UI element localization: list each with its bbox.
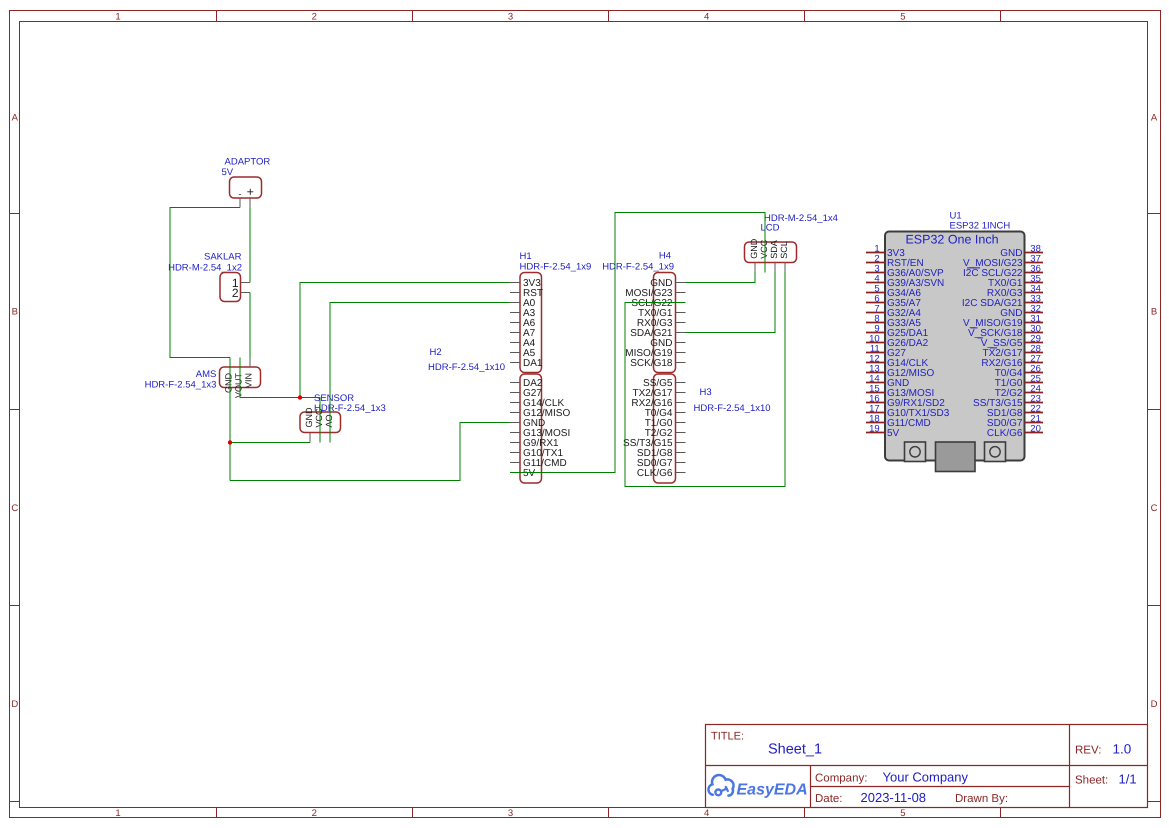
U1 pin 38 GND [1025,252,1044,254]
H2 pin 1 DA2 [510,382,520,384]
wire H2 5V to LCD VCC [510,213,765,473]
U1 pin 30 V_SCK/G18 [1025,332,1044,334]
U1 pin 14 GND [866,382,885,384]
U1 pin 6 G35/A7 [866,302,885,304]
U1 pin 7 G32/A4 [866,312,885,314]
svg-text:ESP32 One Inch: ESP32 One Inch [905,233,998,247]
svg-text:SCK/G18: SCK/G18 [630,358,673,369]
U1 pin 19 5V [866,432,885,434]
H4 pin 5 RX0/G3 [676,322,686,324]
svg-text:+: + [247,185,254,199]
SENSOR pin GND [309,433,311,443]
svg-text:DA1: DA1 [523,358,543,369]
LCD pin GND [754,263,756,273]
IC U1 ESP32 1INCH module [866,211,1043,472]
H4 pin 1 GND [676,282,686,284]
svg-text:SAKLAR: SAKLAR [204,252,242,263]
U1 pin 11 G27 [866,352,885,354]
H4 pin 7 GND [676,342,686,344]
H2 pin 3 G14/CLK [510,402,520,404]
H4 pin 8 MISO/G19 [676,352,686,354]
H4 pin 4 TX0/G1 [676,312,686,314]
U1 mounting pad right [985,442,1006,462]
U1 pin 20 CLK/G6 [1025,432,1044,434]
U1 pin 12 G14/CLK [866,362,885,364]
wire SAKLAR pin2 to AMS VIN [249,293,251,358]
svg-text:HDR-F-2.54_1x9: HDR-F-2.54_1x9 [520,261,592,272]
wire node to H1 3V3 [300,283,510,398]
H4 pin 6 SDA/G21 [676,332,686,334]
svg-text:2: 2 [312,808,317,819]
H2 pin 8 G10/TX1 [510,452,520,454]
svg-text:HDR-F-2.54_1x10: HDR-F-2.54_1x10 [428,362,505,373]
U1 pin 22 SD1/G8 [1025,412,1044,414]
H1 pin 7 A4 [510,342,520,344]
header H1 HDR-F-2.54_1x9 [510,251,591,373]
H2 pin 2 G27 [510,392,520,394]
AMS pin GND [229,358,231,368]
H3 pin 4 T0/G4 [676,412,686,414]
U1 usb tab [936,442,976,472]
svg-text:SCL: SCL [779,241,789,259]
svg-text:HDR-F-2.54_1x10: HDR-F-2.54_1x10 [694,403,771,414]
H4 pin 3 SCL/G22 [676,302,686,304]
svg-text:SDA: SDA [769,240,779,259]
svg-text:VOUT: VOUT [234,373,244,399]
svg-text:Sheet_1: Sheet_1 [768,742,822,758]
U1 pin 29 V_SS/G5 [1025,342,1044,344]
svg-text:B: B [1151,307,1157,318]
svg-text:5: 5 [900,12,905,23]
svg-text:5V: 5V [887,428,900,439]
wire AMS VOUT to node [240,358,300,398]
wire LCD GND to H4 GND [686,273,756,283]
H2 pin 4 G12/MISO [510,412,520,414]
SAKLAR pin 1 [241,282,251,284]
U1 pin 25 T1/G0 [1025,382,1044,384]
svg-text:VCC: VCC [314,408,324,428]
svg-text:1: 1 [115,12,120,23]
U1 pin 10 G26/DA2 [866,342,885,344]
svg-text:1/1: 1/1 [1119,772,1137,787]
H2 pin 7 G9/RX1 [510,442,520,444]
U1 pin 37 V_MOSI/G23 [1025,262,1044,264]
H3 pin 3 RX2/G16 [676,402,686,404]
svg-text:GND: GND [224,373,234,394]
H3 pin 9 SD0/G7 [676,462,686,464]
svg-text:-: - [239,189,242,199]
svg-text:Company:: Company: [815,773,867,785]
wire H1 A0 to SENSOR AO [330,303,510,443]
connector SAKLAR HDR-M-2.54_1x2 (switch) [168,252,250,302]
EasyEDA logo [708,775,807,798]
U1 pin 35 TX0/G1 [1025,282,1044,284]
svg-text:AO: AO [324,414,334,427]
H2 pin 9 G11/CMD [510,462,520,464]
LCD pin SCL [784,263,786,273]
svg-text:A: A [1151,113,1158,124]
U1 pin 15 G13/MOSI [866,392,885,394]
H1 pin 8 A5 [510,352,520,354]
H4 pin 9 SCK/G18 [676,362,686,364]
H1 pin 9 DA1 [510,362,520,364]
svg-text:VCC: VCC [759,239,769,259]
junction node GND [228,440,232,444]
U1 pin 3 G36/A0/SVP [866,272,885,274]
svg-text:5V: 5V [523,468,536,479]
svg-text:CLK/G6: CLK/G6 [987,428,1023,439]
ADAPTOR pin - (negative) [239,198,241,208]
svg-text:CLK/G6: CLK/G6 [637,468,673,479]
wire ADAPTOR+ to SAKLAR pin1 [249,208,251,283]
svg-text:2: 2 [232,286,239,300]
H1 pin 4 A3 [510,312,520,314]
SENSOR pin VCC [319,433,321,443]
U1 pin 32 GND [1025,312,1044,314]
SENSOR pin AO [329,433,331,443]
svg-text:20: 20 [1030,424,1041,435]
svg-text:H4: H4 [659,251,671,262]
SAKLAR pin 2 [241,292,251,294]
U1 pin 18 G11/CMD [866,422,885,424]
U1 pin 31 V_MISO/G19 [1025,322,1044,324]
wire bottom rail to H2 GND [230,423,510,481]
U1 pin 2 RST/EN [866,262,885,264]
svg-text:5V: 5V [222,167,234,178]
ADAPTOR pin + (positive) [249,198,251,208]
LCD pin SDA [774,263,776,273]
svg-text:H3: H3 [700,387,712,398]
wire LCD SCL to H4 SCL/G22 [625,273,785,487]
title block [706,725,1148,808]
connector SENSOR HDR-F-2.54_1x3 [300,393,386,443]
U1 pin 36 I2C SCL/G22 [1025,272,1044,274]
U1 pin 34 RX0/G3 [1025,292,1044,294]
svg-text:Drawn By:: Drawn By: [955,793,1008,805]
H1 pin 1 3V3 [510,282,520,284]
H2 pin 6 G13/MOSI [510,432,520,434]
svg-text:LCD: LCD [761,223,780,234]
svg-text:5: 5 [900,808,905,819]
U1 pin 24 T2/G2 [1025,392,1044,394]
header H3 HDR-F-2.54_1x10 [623,374,771,483]
H4 pin 2 MOSI/G23 [676,292,686,294]
svg-text:D: D [1151,699,1158,710]
regulator AMS HDR-F-2.54_1x3 [145,358,261,399]
H3 pin 2 TX2/G17 [676,392,686,394]
U1 pin 5 G34/A6 [866,292,885,294]
svg-text:4: 4 [704,808,709,819]
U1 pin 13 G12/MISO [866,372,885,374]
svg-text:HDR-F-2.54_1x9: HDR-F-2.54_1x9 [602,261,674,272]
svg-text:2023-11-08: 2023-11-08 [861,790,927,805]
H1 pin 6 A7 [510,332,520,334]
svg-text:REV:: REV: [1075,745,1101,757]
U1 pin 33 I2C SDA/G21 [1025,302,1044,304]
svg-text:C: C [1151,503,1158,514]
wire AMS GND down to bottom rail [229,358,231,481]
U1 pin 17 G10/TX1/SD3 [866,412,885,414]
svg-text:B: B [12,307,18,318]
H2 pin 5 GND [510,422,520,424]
U1 pin 4 G39/A3/SVN [866,282,885,284]
svg-text:1.0: 1.0 [1113,742,1132,757]
U1 overline marks [967,267,980,269]
svg-text:AMS: AMS [196,369,217,380]
junction node VOUT/VCC/3V3 [298,395,302,399]
svg-text:D: D [11,699,18,710]
wire GND node to SENSOR GND [230,442,310,444]
svg-text:VIN: VIN [244,373,254,388]
U1 mounting pad left [905,442,926,462]
U1 pin 26 T0/G4 [1025,372,1044,374]
svg-text:Sheet:: Sheet: [1075,775,1108,787]
U1 pin 1 3V3 [866,252,885,254]
svg-text:HDR-F-2.54_1x3: HDR-F-2.54_1x3 [145,380,217,391]
wire node to SENSOR VCC [300,398,320,443]
H3 pin 6 T2/G2 [676,432,686,434]
H1 pin 2 RST [510,292,520,294]
connector ADAPTOR (5V barrel jack header) [222,157,271,208]
H1 pin 5 A6 [510,322,520,324]
AMS pin VIN [249,358,251,368]
H3 pin 10 CLK/G6 [676,472,686,474]
svg-text:EasyEDA: EasyEDA [737,782,808,799]
H3 pin 1 SS/G5 [676,382,686,384]
svg-text:3: 3 [508,12,513,23]
U1 pin 28 TX2/G17 [1025,352,1044,354]
H1 pin 3 A0 [510,302,520,304]
svg-text:ESP32 1INCH: ESP32 1INCH [950,220,1011,231]
connector LCD HDR-M-2.54_1x4 [745,213,838,273]
LCD pin VCC [764,263,766,273]
U1 pin 9 G25/DA1 [866,332,885,334]
svg-text:4: 4 [704,12,709,23]
header H2 HDR-F-2.54_1x10 [428,347,570,483]
H3 pin 5 T1/G0 [676,422,686,424]
svg-text:C: C [11,503,18,514]
H3 pin 8 SD1/G8 [676,452,686,454]
wire ADAPTOR- to AMS GND [170,208,240,358]
svg-text:Date:: Date: [815,793,843,805]
U1 pin 27 RX2/G16 [1025,362,1044,364]
U1 pin 8 G33/A5 [866,322,885,324]
svg-text:A: A [12,113,19,124]
svg-text:19: 19 [869,424,880,435]
svg-text:H2: H2 [430,347,442,358]
svg-text:TITLE:: TITLE: [711,731,744,743]
AMS pin VOUT [239,358,241,368]
svg-text:2: 2 [312,12,317,23]
svg-text:Your Company: Your Company [883,770,969,785]
U1 pin 21 SD0/G7 [1025,422,1044,424]
U1 pin 16 G9/RX1/SD2 [866,402,885,404]
H3 pin 7 SS/T3/G15 [676,442,686,444]
H2 pin 10 5V [510,472,520,474]
svg-text:GND: GND [749,238,759,259]
wire LCD SDA to H4 SDA/G21 [686,273,776,333]
svg-text:1: 1 [115,808,120,819]
svg-text:ADAPTOR: ADAPTOR [225,157,271,168]
svg-text:GND: GND [304,407,314,428]
header H4 HDR-F-2.54_1x9 [602,251,685,373]
U1 pin 23 SS/T3/G15 [1025,402,1044,404]
svg-text:3: 3 [508,808,513,819]
